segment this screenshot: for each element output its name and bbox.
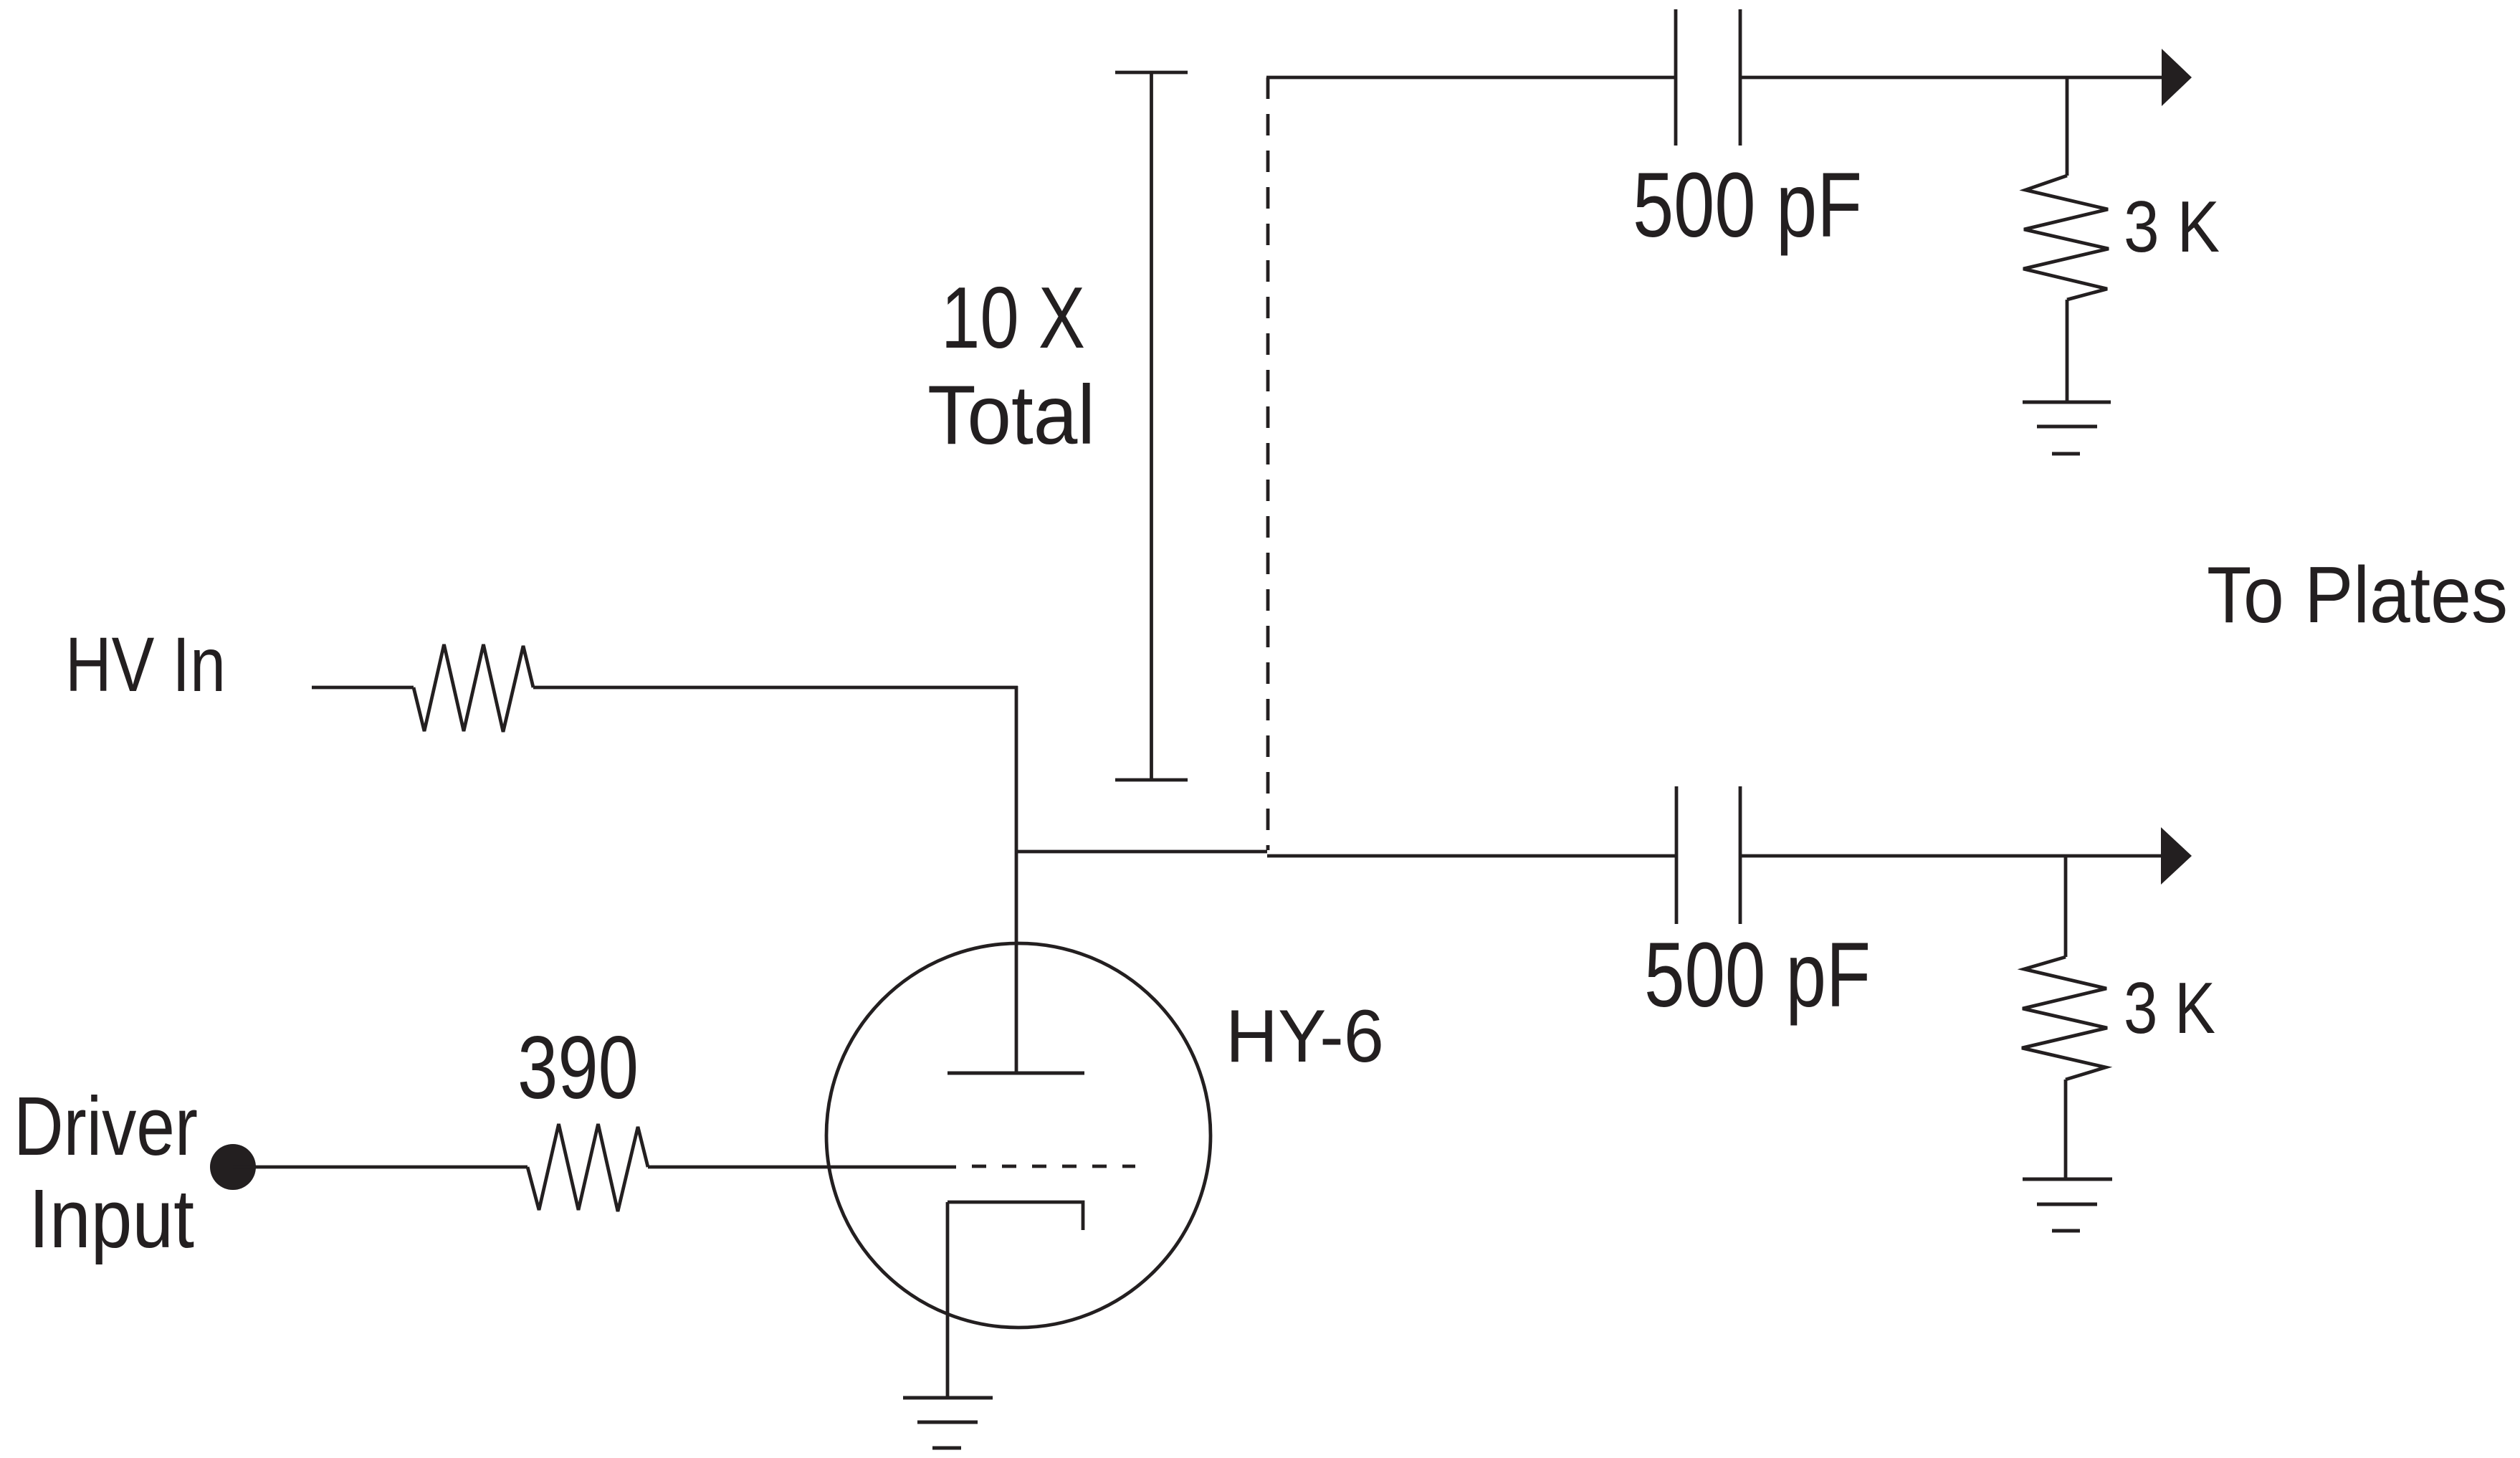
svg-text:HV In: HV In <box>65 621 226 707</box>
svg-text:390: 390 <box>517 1019 639 1118</box>
resistor R-HV (horizontal zigzag) <box>414 644 533 732</box>
wire: R 390 to tube grid <box>648 1166 956 1169</box>
svg-text:500 pF: 500 pF <box>1644 924 1871 1026</box>
arrow: top output <box>2162 49 2192 106</box>
bracket: 10 X Total vertical line <box>1150 72 1153 780</box>
wire: junction to lower capacitor C2 <box>1267 854 1676 858</box>
tube plate bar <box>948 1072 1084 1075</box>
svg-text:Total: Total <box>927 368 1095 462</box>
wire: HV In to series resistor <box>312 686 414 690</box>
capacitor C1 right plate <box>1739 9 1742 146</box>
resistor R2 3K (vertical zigzag) <box>2022 957 2107 1080</box>
ground: tube cathode <box>903 1398 993 1448</box>
wire: R1 to ground <box>2066 300 2069 402</box>
node: Driver Input terminal <box>210 1144 256 1190</box>
bracket: top tick <box>1115 71 1188 75</box>
wire: plate lead (vertical drop into tube) <box>1015 686 1018 1073</box>
svg-text:To Plates: To Plates <box>2207 551 2508 639</box>
wire: R2 to ground <box>2064 1080 2068 1179</box>
tube V1 envelope <box>826 943 1211 1328</box>
capacitor C2 right plate <box>1739 786 1742 924</box>
resistor R1 3K (vertical zigzag) <box>2023 176 2109 300</box>
tube grid (dashed electrode) <box>972 1165 1135 1168</box>
capacitor C1 left plate <box>1674 9 1678 146</box>
tube cathode <box>948 1202 1083 1230</box>
arrow: lower output <box>2161 827 2192 885</box>
svg-text:500 pF: 500 pF <box>1633 154 1862 257</box>
ground: below R2 <box>2023 1179 2112 1231</box>
resistor R 390 (horizontal zigzag) <box>528 1124 648 1211</box>
wire: top node to resistor R1 stub <box>2066 77 2069 176</box>
ground: below R1 <box>2023 402 2111 454</box>
svg-text:10 X: 10 X <box>941 269 1085 366</box>
wire: dashed stack bus (vertical dashed line) <box>1266 77 1270 850</box>
bracket: bottom tick <box>1115 778 1188 782</box>
wire: lower node to resistor R2 stub <box>2064 856 2068 957</box>
wire: C1 to top arrow <box>1740 76 2163 80</box>
svg-text:HY-6: HY-6 <box>1226 995 1384 1078</box>
svg-text:Input: Input <box>29 1172 194 1265</box>
svg-text:3 K: 3 K <box>2124 187 2220 267</box>
wire: input dot to R 390 <box>233 1166 528 1169</box>
wire: top rail to capacitor C1 <box>1266 76 1676 80</box>
wire: cathode to ground <box>946 1202 950 1398</box>
svg-text:3 K: 3 K <box>2124 968 2215 1049</box>
capacitor C2 left plate <box>1675 786 1679 924</box>
wire: C2 to lower arrow <box>1740 854 2163 858</box>
wire: plate node to dashed junction (lower-left horizontal) <box>1015 850 1267 854</box>
svg-text:Driver: Driver <box>14 1080 198 1173</box>
wire: R-HV to plate node <box>533 686 1018 690</box>
